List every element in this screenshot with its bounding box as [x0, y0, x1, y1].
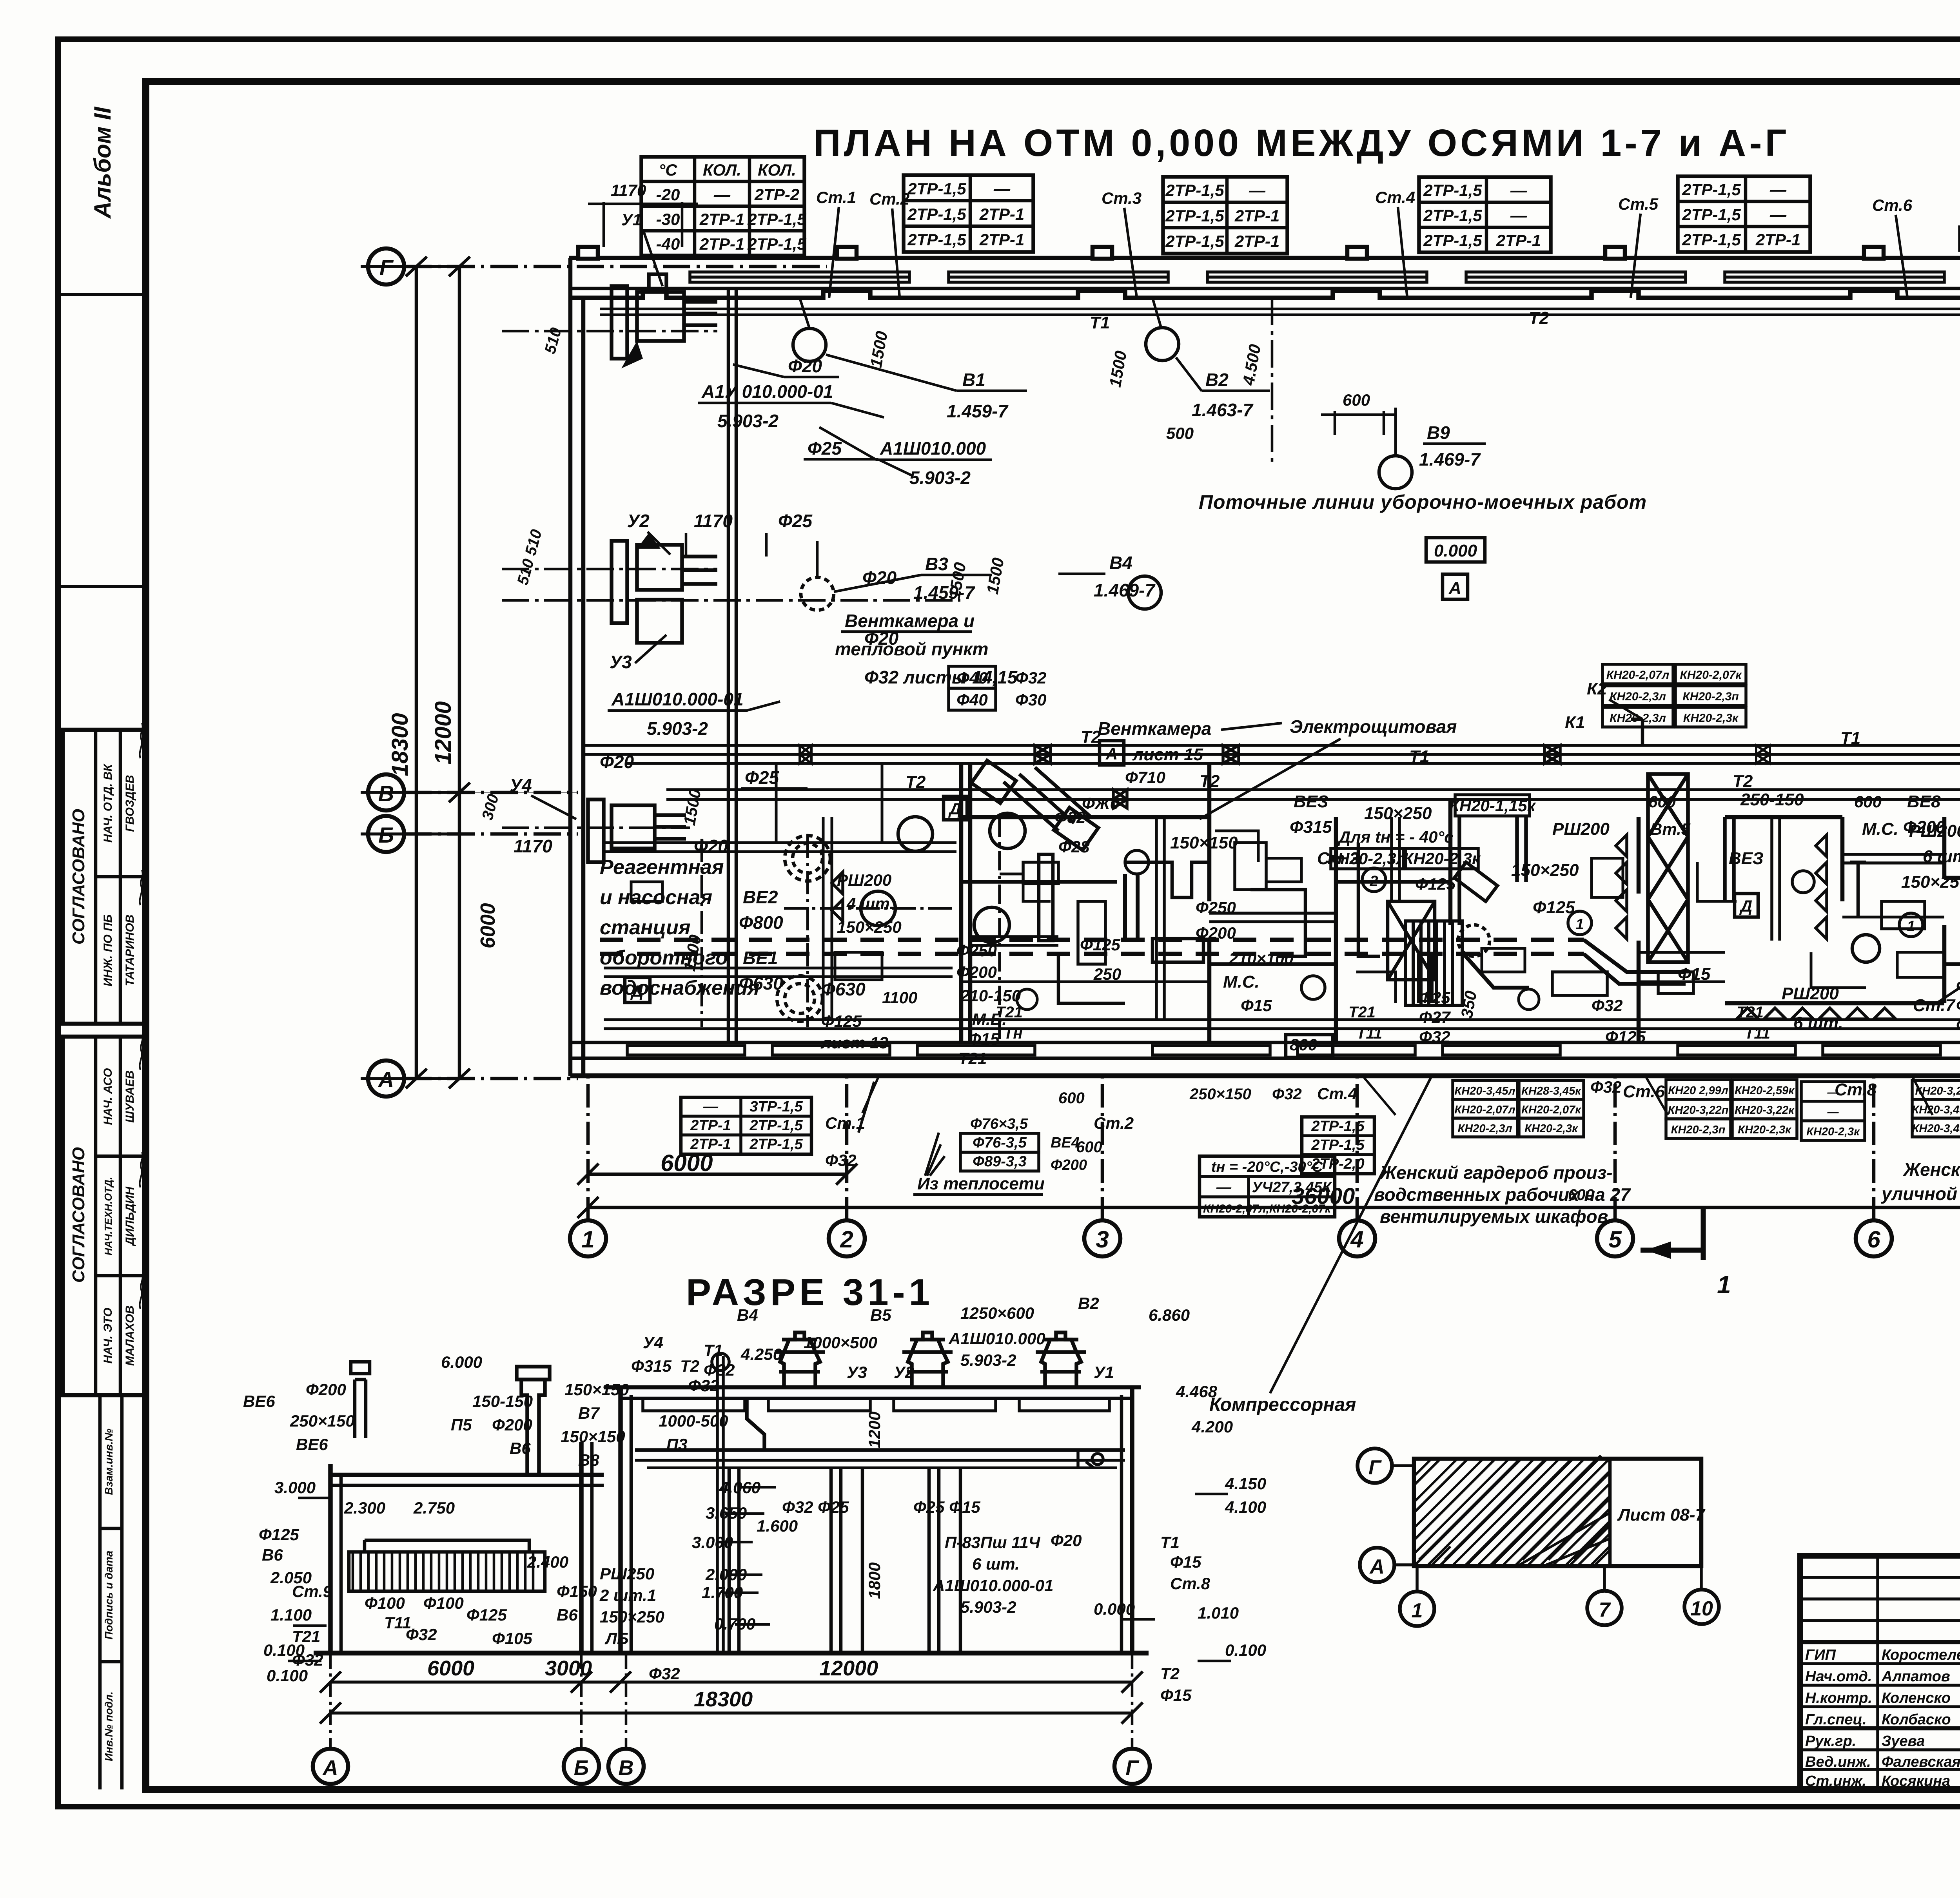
svg-text:Ф15: Ф15	[1160, 1686, 1192, 1704]
bottom column grid: dimension lines	[588, 1173, 847, 1176]
svg-text:1.469-7: 1.469-7	[1094, 580, 1156, 600]
svg-text:Реагентная: Реагентная	[600, 856, 724, 879]
svg-text:5: 5	[1608, 1226, 1622, 1253]
svg-text:1: 1	[1412, 1599, 1423, 1622]
svg-text:КН20-2,07к: КН20-2,07к	[1680, 669, 1742, 682]
svg-text:2ТР-1: 2ТР-1	[1234, 232, 1279, 250]
svg-text:Т21: Т21	[1737, 1004, 1764, 1021]
svg-text:1250×600: 1250×600	[960, 1304, 1034, 1322]
svg-text:2ТР-1,5: 2ТР-1,5	[749, 1117, 803, 1134]
svg-text:6: 6	[1867, 1226, 1880, 1253]
small arrows/leaders in section	[288, 1487, 1231, 1661]
svg-text:КН20-3,45п: КН20-3,45п	[1912, 1122, 1960, 1135]
svg-text:КН20-2,3к: КН20-2,3к	[1738, 1124, 1791, 1136]
svg-text:Т11: Т11	[384, 1613, 411, 1632]
svg-text:Т2: Т2	[906, 772, 926, 792]
svg-text:Венткамера и: Венткамера и	[845, 611, 975, 631]
svg-text:-40: -40	[656, 235, 680, 253]
interior partition walls	[961, 763, 1960, 1042]
svg-text:2ТР-2: 2ТР-2	[754, 185, 799, 204]
svg-text:Венткамера: Венткамера	[1098, 718, 1211, 739]
svg-text:П-83Пш 11Ч: П-83Пш 11Ч	[945, 1533, 1041, 1552]
svg-text:Ст.2: Ст.2	[1094, 1114, 1134, 1132]
svg-text:1.469-7: 1.469-7	[1419, 449, 1481, 470]
svg-text:вентилируемых шкафов: вентилируемых шкафов	[1380, 1206, 1608, 1227]
svg-text:Т1: Т1	[1090, 313, 1110, 332]
svg-text:Ф25: Ф25	[808, 438, 842, 459]
svg-text:2ТР-1,5: 2ТР-1,5	[749, 1136, 803, 1153]
svg-text:—: —	[703, 1099, 719, 1115]
svg-text:А: А	[1105, 745, 1118, 763]
svg-text:КН20-2,3п: КН20-2,3п	[1682, 690, 1739, 703]
inventory strip column	[100, 1395, 122, 1789]
svg-text:5.903-2: 5.903-2	[909, 468, 971, 488]
svg-text:—: —	[993, 179, 1011, 198]
left wall	[568, 258, 573, 1076]
dimension lines bottom of section	[330, 1680, 1132, 1684]
svg-text:Н.контр.: Н.контр.	[1805, 1690, 1872, 1706]
svg-text:Т1: Т1	[1160, 1533, 1180, 1552]
КН tables top right	[1602, 664, 1746, 727]
svg-text:2ТР-1,5: 2ТР-1,5	[1311, 1118, 1365, 1135]
fan В2	[1146, 298, 1179, 361]
window slots in each bay	[690, 272, 1960, 282]
svg-text:1170: 1170	[611, 181, 646, 199]
svg-text:Взам.инв.№: Взам.инв.№	[103, 1428, 115, 1495]
leader ticks below bottom wall	[862, 1078, 1960, 1115]
svg-text:К1: К1	[1565, 713, 1585, 732]
svg-text:Ст.3: Ст.3	[1102, 189, 1142, 207]
svg-text:150×250: 150×250	[1901, 872, 1960, 892]
vertical pipes at Б-В	[712, 1353, 1103, 1653]
svg-text:1.010: 1.010	[1198, 1604, 1239, 1622]
svg-text:Ф25: Ф25	[778, 511, 813, 531]
some machinery shapes center	[974, 813, 1960, 1027]
svg-text:и насосная: и насосная	[600, 886, 712, 909]
svg-text:Т2: Т2	[1529, 308, 1549, 328]
svg-text:Ст.7: Ст.7	[1913, 996, 1956, 1015]
svg-text:600: 600	[1076, 1138, 1102, 1156]
svg-text:Ф25: Ф25	[1956, 977, 1960, 995]
roof deflectors В4 В5 В2	[775, 1332, 1086, 1387]
svg-text:Т21: Т21	[292, 1627, 320, 1646]
svg-text:3: 3	[1096, 1226, 1109, 1253]
svg-text:В1: В1	[962, 370, 985, 390]
X duct column	[1648, 774, 1688, 962]
centerline through У1	[502, 330, 717, 333]
svg-text:У3: У3	[610, 652, 632, 672]
svg-text:1800: 1800	[865, 1563, 884, 1599]
svg-text:КН20-3,22п: КН20-3,22п	[1668, 1104, 1729, 1117]
svg-text:7: 7	[1599, 1599, 1611, 1621]
svg-text:КОЛ.: КОЛ.	[703, 161, 741, 179]
svg-text:Ф30: Ф30	[1015, 691, 1047, 709]
fan В4	[1128, 576, 1161, 609]
heating mains T2/T1 upper run	[584, 744, 1960, 747]
interior columns В-Г (door lines)	[729, 1468, 960, 1653]
svg-text:А1Ш010.000-01: А1Ш010.000-01	[933, 1576, 1053, 1595]
svg-text:А: А	[1369, 1555, 1385, 1578]
mid riser table	[1302, 1117, 1374, 1174]
Г wall	[1130, 1387, 1134, 1653]
svg-text:500: 500	[1166, 424, 1194, 442]
svg-text:КН20-3,2л: КН20-3,2л	[1915, 1085, 1960, 1097]
svg-text:М.Б.: М.Б.	[972, 1010, 1007, 1028]
svg-text:Коростелев: Коростелев	[1882, 1647, 1960, 1663]
svg-text:2ТР-1: 2ТР-1	[699, 210, 744, 228]
svg-text:150×250: 150×250	[837, 918, 902, 936]
svg-text:6000: 6000	[477, 903, 499, 948]
riser table near Ст.2	[904, 175, 1033, 252]
interior heating pipes along top wall	[600, 309, 1960, 315]
svg-text:Ф15: Ф15	[1241, 996, 1272, 1015]
Ф misc labels mid	[1054, 768, 1960, 1054]
svg-text:Ф25: Ф25	[1956, 996, 1960, 1015]
left riser table	[681, 1097, 811, 1154]
extra machinery texture: partition walls	[961, 817, 1960, 1042]
label А1Ш010.000-01 5.903-2 lower	[611, 689, 744, 739]
svg-text:Ф100: Ф100	[365, 1594, 405, 1612]
0.000 level box	[1426, 538, 1485, 562]
svg-text:Т2: Т2	[1160, 1664, 1180, 1683]
svg-text:В6: В6	[262, 1546, 283, 1564]
svg-text:Ф15: Ф15	[968, 1030, 1000, 1048]
svg-text:ГИП: ГИП	[1805, 1647, 1836, 1663]
svg-text:Ф32: Ф32	[1272, 1086, 1302, 1103]
svg-text:6.860: 6.860	[1149, 1306, 1190, 1324]
svg-text:2ТР-1,5: 2ТР-1,5	[1165, 232, 1224, 250]
svg-text:КН20 2,99л: КН20 2,99л	[1668, 1084, 1728, 1097]
svg-text:К2: К2	[1587, 679, 1607, 698]
svg-text:Ст.3: Ст.3	[1317, 849, 1359, 868]
svg-text:3.000: 3.000	[274, 1478, 316, 1497]
svg-text:1.459-7: 1.459-7	[913, 582, 975, 603]
svg-text:Колбаско: Колбаско	[1882, 1711, 1951, 1728]
svg-text:ИНЖ. ПО ПБ: ИНЖ. ПО ПБ	[102, 914, 114, 986]
svg-text:-30: -30	[656, 210, 680, 228]
svg-text:1170: 1170	[694, 511, 733, 531]
svg-text:КН20-2,59к: КН20-2,59к	[1735, 1084, 1795, 1097]
svg-text:2ТР-1: 2ТР-1	[1755, 230, 1800, 249]
svg-text:Ф250: Ф250	[956, 941, 997, 960]
svg-text:Компрессорная: Компрессорная	[1209, 1394, 1356, 1415]
roof beams	[643, 1398, 1109, 1411]
svg-text:СОГЛАСОВАНО: СОГЛАСОВАНО	[69, 809, 88, 944]
КН tables row (below bottom wall)	[1453, 1078, 1960, 1140]
svg-text:1: 1	[1575, 916, 1584, 933]
svg-text:150×250: 150×250	[1511, 861, 1579, 880]
А section box	[1443, 574, 1468, 599]
svg-text:Ст.9: Ст.9	[292, 1582, 332, 1601]
svg-text:Для tн = - 40°с: Для tн = - 40°с	[1338, 828, 1454, 846]
svg-text:Ф630: Ф630	[821, 979, 866, 999]
svg-text:4.100: 4.100	[1225, 1498, 1266, 1516]
temperature table left	[641, 157, 806, 256]
svg-text:—: —	[1510, 181, 1527, 199]
svg-text:—: —	[1249, 181, 1266, 199]
svg-text:ВЕ4: ВЕ4	[1051, 1135, 1080, 1151]
svg-text:Ф32: Ф32	[1592, 996, 1623, 1015]
svg-text:tн = -20°С,-30°С: tн = -20°С,-30°С	[1211, 1159, 1323, 1175]
signature rows text	[1805, 1647, 1960, 1789]
svg-text:Ф200: Ф200	[306, 1380, 346, 1399]
svg-text:В9: В9	[1427, 422, 1450, 443]
section cut mark 1-1	[1641, 1207, 1731, 1299]
svg-text:Ст.1: Ст.1	[816, 188, 856, 207]
svg-text:Д: Д	[1739, 897, 1752, 915]
svg-text:КН20-2,07л: КН20-2,07л	[1454, 1104, 1515, 1116]
main stamp	[1800, 1556, 1960, 1790]
riser table near Ст.3	[1163, 177, 1287, 254]
svg-text:Ф20: Ф20	[694, 836, 728, 856]
женский гардероб labels	[1209, 1084, 1960, 1415]
svg-text:Ф800: Ф800	[739, 912, 783, 933]
svg-text:Электрощитовая: Электрощитовая	[1290, 716, 1457, 737]
svg-text:У1: У1	[1094, 1363, 1114, 1381]
svg-text:Инв.№ подл.: Инв.№ подл.	[103, 1691, 115, 1761]
svg-text:Ф125: Ф125	[466, 1606, 507, 1624]
second run	[666, 788, 1960, 791]
svg-text:СОГЛАСОВАНО: СОГЛАСОВАНО	[69, 1147, 88, 1283]
svg-text:РШ250: РШ250	[600, 1564, 654, 1583]
svg-text:Подпись и дата: Подпись и дата	[103, 1551, 115, 1640]
svg-text:1.600: 1.600	[757, 1517, 798, 1535]
svg-text:ТАТАРИНОВ: ТАТАРИНОВ	[123, 915, 136, 986]
svg-text:Коленско: Коленско	[1882, 1690, 1951, 1706]
equipment hatch block in А-Б room	[349, 1540, 545, 1591]
svg-text:УЧ27,3,45К: УЧ27,3,45К	[1252, 1179, 1332, 1196]
svg-text:У3: У3	[847, 1363, 867, 1381]
svg-text:В5: В5	[870, 1306, 891, 1324]
svg-text:250-150: 250-150	[1740, 790, 1804, 809]
top wall inner face with pilasters	[569, 291, 1960, 298]
svg-text:А1Ш010.000: А1Ш010.000	[880, 438, 986, 459]
svg-text:Ф89-3,3: Ф89-3,3	[973, 1153, 1026, 1170]
svg-text:ВЕ8: ВЕ8	[1907, 792, 1941, 811]
riser table near Ст.5	[1678, 176, 1810, 252]
svg-text:2ТР-1,5: 2ТР-1,5	[1682, 230, 1741, 249]
elevation labels right/mid section	[267, 1294, 1266, 1704]
svg-text:КН20-3,45л: КН20-3,45л	[1454, 1085, 1515, 1097]
svg-text:1100: 1100	[882, 988, 917, 1007]
svg-text:°С: °С	[659, 161, 677, 179]
svg-text:—: —	[713, 185, 731, 204]
svg-text:2ТР-1,5: 2ТР-1,5	[1682, 205, 1741, 224]
svg-text:КН20-3,45л: КН20-3,45л	[1912, 1104, 1960, 1116]
top wall window band lines	[569, 287, 1960, 290]
svg-text:КН20-1,15к: КН20-1,15к	[1449, 796, 1536, 815]
svg-text:3000: 3000	[545, 1657, 592, 1680]
dim ticks top of vertical dims	[361, 265, 459, 268]
svg-text:ВЕ1: ВЕ1	[743, 948, 778, 968]
svg-text:водоснабжения: водоснабжения	[600, 977, 760, 999]
svg-text:—: —	[1216, 1179, 1232, 1196]
axis circle Г	[368, 248, 404, 285]
svg-text:НАЧ. ОТД. ВК: НАЧ. ОТД. ВК	[102, 763, 114, 843]
axis line Г	[404, 265, 827, 268]
label А1Ш010.000 5.903-2 (to В1)	[880, 438, 986, 488]
svg-text:2ТР-1,5: 2ТР-1,5	[1311, 1137, 1365, 1153]
svg-text:М.С.: М.С.	[1862, 819, 1898, 839]
svg-text:Ф125: Ф125	[821, 1012, 862, 1030]
svg-text:2.750: 2.750	[413, 1499, 455, 1517]
svg-text:А1У 010.000-01: А1У 010.000-01	[701, 381, 833, 402]
svg-text:Ф25 Ф15: Ф25 Ф15	[913, 1498, 980, 1516]
svg-text:РАЗРЕ 31-1: РАЗРЕ 31-1	[686, 1271, 934, 1313]
svg-text:Ф15: Ф15	[1170, 1553, 1201, 1571]
В wall	[618, 1387, 623, 1653]
suspended duct line В-Г	[635, 1448, 1125, 1452]
svg-text:2ТР-1,5: 2ТР-1,5	[907, 205, 966, 223]
svg-text:ВЕЗ: ВЕЗ	[1294, 792, 1328, 811]
hatch	[1414, 1456, 1610, 1566]
svg-text:2 шт.1: 2 шт.1	[599, 1586, 656, 1604]
svg-text:ШУВАЕВ: ШУВАЕВ	[123, 1070, 136, 1123]
fan В1	[793, 298, 826, 361]
svg-text:Ф40: Ф40	[956, 691, 988, 709]
approval table 2	[63, 1035, 146, 1395]
svg-text:Ф32 Ф25: Ф32 Ф25	[782, 1498, 849, 1516]
svg-text:МАЛАХОВ: МАЛАХОВ	[123, 1305, 136, 1366]
svg-text:Ф105: Ф105	[492, 1629, 533, 1648]
svg-text:П3: П3	[666, 1435, 688, 1454]
svg-text:Зуева: Зуева	[1882, 1733, 1925, 1749]
svg-text:КН20-2,07к: КН20-2,07к	[1521, 1104, 1581, 1116]
svg-text:КН20-2,3к: КН20-2,3к	[1403, 849, 1481, 868]
svg-text:3ТР-1,5: 3ТР-1,5	[750, 1099, 803, 1115]
valve symbols on mains	[1035, 745, 1051, 763]
svg-text:2ТР-1,5: 2ТР-1,5	[747, 235, 806, 253]
svg-text:Ф200: Ф200	[1051, 1157, 1087, 1173]
svg-text:2ТР-1: 2ТР-1	[1234, 207, 1279, 225]
svg-text:150×150: 150×150	[561, 1427, 625, 1446]
grid circles 1-7	[570, 1076, 1960, 1256]
top wall outer line	[569, 256, 1960, 260]
svg-text:Ф32: Ф32	[1956, 1016, 1960, 1034]
svg-text:Ф32: Ф32	[649, 1664, 680, 1683]
svg-text:Ф125: Ф125	[1415, 875, 1456, 893]
svg-text:Ф200: Ф200	[1903, 818, 1945, 837]
svg-text:4.200: 4.200	[1191, 1418, 1233, 1436]
svg-text:Ф100: Ф100	[423, 1594, 464, 1612]
svg-text:2ТР-1,5: 2ТР-1,5	[1423, 181, 1482, 199]
svg-text:А1Ш010.000-01: А1Ш010.000-01	[611, 689, 744, 709]
svg-text:Вт.5: Вт.5	[1650, 820, 1691, 838]
fan В3	[801, 541, 834, 610]
svg-text:2ТР-1: 2ТР-1	[690, 1136, 731, 1153]
svg-text:—: —	[1510, 206, 1527, 225]
svg-text:Женский гардероб произ-: Женский гардероб произ-	[1379, 1162, 1613, 1183]
svg-text:Ф200: Ф200	[956, 963, 997, 981]
В-Г roof slab	[604, 1385, 1141, 1390]
svg-text:Альбом II: Альбом II	[89, 106, 116, 219]
svg-text:ВЕ2: ВЕ2	[743, 887, 778, 907]
svg-text:4.250: 4.250	[740, 1345, 782, 1363]
svg-text:2ТР-1,5: 2ТР-1,5	[907, 230, 966, 249]
svg-text:Ф710: Ф710	[1125, 768, 1165, 787]
hatched heater unit В7	[1405, 921, 1529, 1005]
riser table near Ст.4	[1419, 177, 1551, 252]
Б wall	[579, 1442, 584, 1653]
svg-text:У2: У2	[894, 1363, 914, 1381]
ВЕЗ Ф315 and ВЕ8	[1290, 792, 1945, 984]
vertical pipe pair	[727, 290, 730, 1042]
svg-text:КН20-2,3л: КН20-2,3л	[1610, 690, 1666, 703]
svg-text:КОЛ.: КОЛ.	[758, 161, 796, 179]
svg-text:ВЕ6: ВЕ6	[296, 1435, 328, 1454]
svg-text:Ф315: Ф315	[1290, 818, 1332, 837]
svg-text:6000: 6000	[427, 1657, 474, 1680]
svg-text:2ТР-1: 2ТР-1	[1496, 231, 1541, 250]
Для tн=-40 labels	[1327, 795, 1536, 869]
svg-text:1: 1	[1717, 1271, 1731, 1299]
svg-text:—: —	[1827, 1106, 1839, 1118]
svg-text:1.463-7: 1.463-7	[1192, 400, 1254, 420]
svg-text:2ТР-1: 2ТР-1	[979, 205, 1024, 223]
tn table	[1200, 1156, 1335, 1217]
svg-text:У4: У4	[510, 775, 532, 796]
svg-text:ПЛАН НА ОТМ 0,000 МЕЖДУ ОСЯ: ПЛАН НА ОТМ 0,000 МЕЖДУ ОСЯМИ 1-7 и А-Г	[813, 121, 1790, 164]
svg-text:ДИЛЬДИН: ДИЛЬДИН	[123, 1186, 136, 1247]
svg-text:КН28-3,45к: КН28-3,45к	[1521, 1085, 1581, 1097]
svg-text:НАЧ. АСО: НАЧ. АСО	[102, 1068, 114, 1125]
svg-text:2: 2	[840, 1226, 853, 1253]
axis circle Б	[368, 816, 404, 852]
svg-text:Ст.4: Ст.4	[1317, 1084, 1357, 1103]
left block ceiling	[330, 1473, 604, 1477]
РШ200 triangles rows	[1616, 835, 1960, 1019]
svg-text:—: —	[1769, 180, 1787, 199]
svg-text:уличной и домашней одежды: уличной и домашней одежды	[1881, 1184, 1960, 1204]
svg-text:В4: В4	[737, 1306, 758, 1324]
left signature columns	[1800, 1576, 1960, 1579]
svg-text:НАЧ.ТЕХН.ОТД.: НАЧ.ТЕХН.ОТД.	[102, 1177, 114, 1256]
svg-text:Ф200: Ф200	[492, 1416, 532, 1434]
svg-text:А: А	[1448, 578, 1461, 598]
svg-text:Ф630: Ф630	[739, 973, 783, 993]
svg-text:КН20-3,22к: КН20-3,22к	[1735, 1104, 1795, 1117]
svg-text:250×150: 250×150	[290, 1412, 355, 1430]
svg-text:КН20-2,3к: КН20-2,3к	[1806, 1126, 1860, 1138]
svg-text:В2: В2	[1205, 370, 1229, 390]
svg-text:Т2: Т2	[680, 1357, 699, 1375]
svg-text:КН20-2,07л: КН20-2,07л	[1606, 669, 1670, 682]
approval table 1	[63, 723, 146, 1024]
svg-text:150×150: 150×150	[1170, 833, 1238, 852]
svg-text:оборотного: оборотного	[600, 946, 728, 969]
svg-text:600: 600	[1343, 391, 1370, 409]
svg-text:Г: Г	[1368, 1456, 1382, 1479]
из теплосети pipes labels	[913, 1116, 1087, 1195]
svg-text:1: 1	[581, 1226, 594, 1253]
svg-text:Ф125: Ф125	[259, 1525, 299, 1544]
svg-text:4 шт.: 4 шт.	[846, 894, 894, 913]
Женский гардероб tables group 1	[0, 0, 0, 0]
svg-text:Т2: Т2	[1733, 772, 1753, 791]
svg-text:1200: 1200	[865, 1412, 884, 1448]
svg-text:Ф32: Ф32	[688, 1376, 719, 1395]
svg-text:800: 800	[1290, 1035, 1317, 1054]
ВЕЗ chimney on left block	[517, 1367, 550, 1475]
svg-text:2ТР-1,5: 2ТР-1,5	[747, 210, 806, 228]
svg-text:6 шт.: 6 шт.	[972, 1555, 1020, 1573]
svg-text:0.100: 0.100	[267, 1666, 308, 1685]
svg-text:В6: В6	[510, 1439, 531, 1457]
svg-text:Ф125: Ф125	[1533, 898, 1575, 917]
svg-text:Ст.8: Ст.8	[1170, 1574, 1210, 1593]
У4 unit	[588, 799, 686, 862]
svg-text:тепловой пункт: тепловой пункт	[835, 639, 988, 659]
